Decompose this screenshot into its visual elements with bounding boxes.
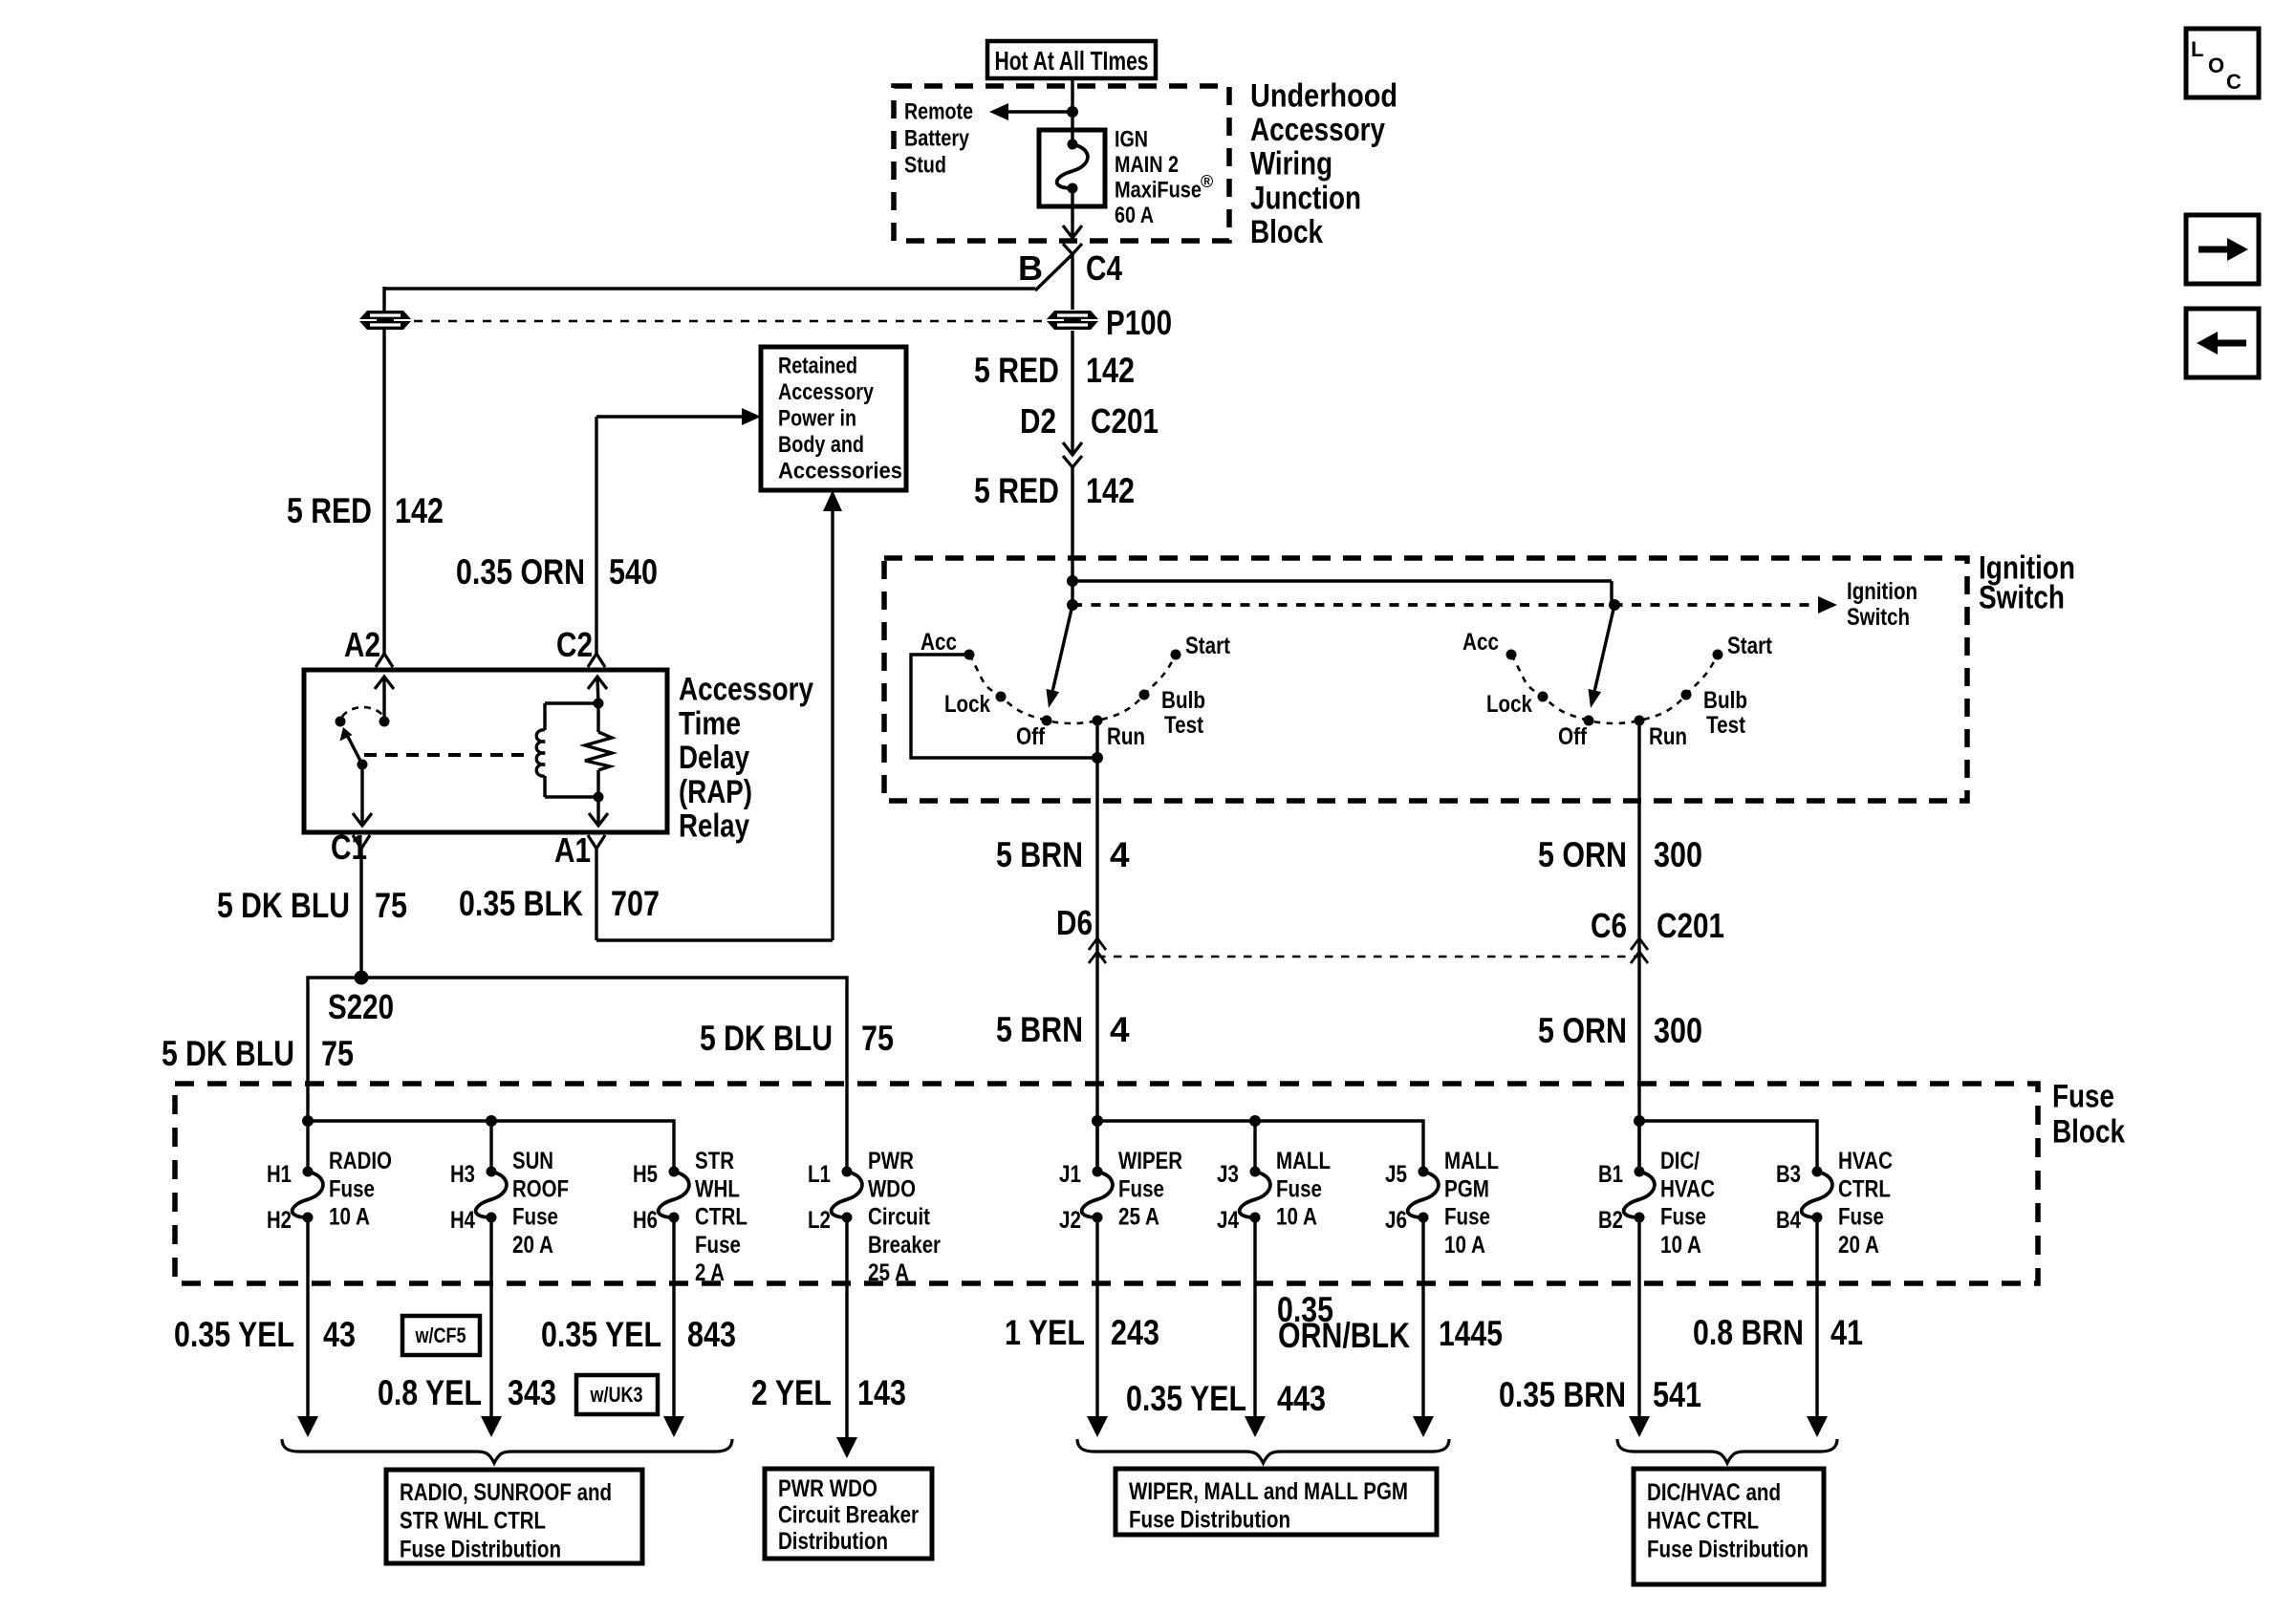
connector chevron at A2 xyxy=(376,654,393,667)
wire: ignition feed cross-over xyxy=(1072,581,1612,605)
label D6 xyxy=(1056,903,1093,942)
label 5 DK BLU 75 (left) xyxy=(162,1034,354,1073)
svg-text:5 DK BLU: 5 DK BLU xyxy=(162,1034,294,1073)
svg-text:41: 41 xyxy=(1830,1313,1863,1352)
arrow into Retained Accessory Power box xyxy=(742,408,761,425)
node: bus junction at sunroof drop xyxy=(486,1115,497,1127)
svg-text:0.35 BRN: 0.35 BRN xyxy=(1499,1375,1626,1414)
wire: P100 to C201 D2 xyxy=(1071,331,1073,453)
svg-text:60 A: 60 A xyxy=(1115,203,1154,228)
fuse WIPER 25 A (J1/J2) xyxy=(1059,1148,1182,1234)
svg-text:142: 142 xyxy=(395,491,444,530)
Underhood Accessory Wiring Junction Block (dashed) xyxy=(894,86,1229,241)
svg-text:Switch: Switch xyxy=(1847,604,1910,631)
svg-text:DIC/HVAC and: DIC/HVAC and xyxy=(1647,1479,1781,1506)
svg-text:Battery: Battery xyxy=(904,125,970,151)
svg-text:Fuse: Fuse xyxy=(329,1175,375,1202)
svg-text:S220: S220 xyxy=(328,987,394,1026)
RADIO SUNROOF STR WHL CTRL Fuse Distribution box xyxy=(386,1470,642,1563)
label 5 DK BLU 75 (right) xyxy=(700,1019,894,1058)
svg-text:Test: Test xyxy=(1164,712,1204,739)
connector C201 pin C6 chevrons xyxy=(1631,938,1648,963)
wire: fuse output drop at x=322 xyxy=(297,1217,318,1437)
label 5 BRN 4 (upper) xyxy=(996,835,1130,874)
svg-text:L2: L2 xyxy=(808,1207,831,1234)
svg-text:5 BRN: 5 BRN xyxy=(996,1010,1083,1049)
svg-text:25 A: 25 A xyxy=(868,1259,909,1286)
svg-text:Relay: Relay xyxy=(679,808,749,845)
fuse MALL PGM 10 A (J5/J6) xyxy=(1385,1148,1499,1259)
label B xyxy=(1018,248,1043,288)
svg-text:0.35 BLK: 0.35 BLK xyxy=(459,884,583,923)
svg-text:Run: Run xyxy=(1649,723,1687,750)
svg-text:Accessory: Accessory xyxy=(778,379,875,405)
svg-text:Accessory: Accessory xyxy=(1250,112,1385,148)
svg-text:HVAC: HVAC xyxy=(1660,1175,1715,1202)
svg-text:P100: P100 xyxy=(1106,303,1172,342)
wire: fuse bus dic group xyxy=(1639,1121,1817,1172)
svg-text:Fuse: Fuse xyxy=(1660,1204,1706,1231)
svg-text:Start: Start xyxy=(1727,633,1773,659)
relay switch lower contact dot xyxy=(357,760,368,770)
svg-text:5 DK BLU: 5 DK BLU xyxy=(700,1019,833,1058)
svg-text:RADIO: RADIO xyxy=(329,1148,392,1174)
svg-text:Bulb: Bulb xyxy=(1703,687,1747,714)
svg-text:C4: C4 xyxy=(1086,248,1122,288)
backward arrow legend box xyxy=(2186,309,2259,377)
svg-text:4: 4 xyxy=(1110,835,1130,874)
svg-text:MaxiFuse: MaxiFuse xyxy=(1115,177,1202,203)
IGN MAIN 2 MaxiFuse 60 A label xyxy=(1115,126,1213,228)
w/CF5 tag box xyxy=(402,1316,480,1355)
label C1 xyxy=(331,828,367,867)
Underhood Accessory Wiring Junction Block label xyxy=(1250,77,1397,249)
wire: harness run to left drop xyxy=(384,287,1035,291)
svg-text:10 A: 10 A xyxy=(329,1204,370,1231)
wire: fuse output drop at x=886 xyxy=(836,1217,857,1458)
wire: grommet down to relay A2 xyxy=(382,330,385,654)
svg-text:Circuit Breaker: Circuit Breaker xyxy=(778,1502,919,1529)
connector chevron at C1 xyxy=(353,835,370,849)
node: bus junction at radio drop xyxy=(302,1115,314,1127)
connector C201 pin D6 chevrons xyxy=(1089,938,1106,963)
relay terminal C2 wire (up arrow) xyxy=(588,677,607,703)
svg-text:Underhood: Underhood xyxy=(1250,77,1397,114)
svg-text:C: C xyxy=(2226,70,2242,94)
connector P100 grommet (right) xyxy=(1047,311,1098,330)
svg-text:Delay: Delay xyxy=(679,740,749,776)
svg-text:1 YEL: 1 YEL xyxy=(1005,1313,1085,1352)
relay resistor xyxy=(585,703,612,797)
svg-text:L: L xyxy=(2191,37,2203,61)
label 0.35 YEL 843 xyxy=(541,1315,736,1354)
svg-text:B3: B3 xyxy=(1776,1161,1801,1188)
svg-text:0.8 YEL: 0.8 YEL xyxy=(378,1373,482,1412)
svg-text:RADIO, SUNROOF and: RADIO, SUNROOF and xyxy=(400,1479,612,1506)
svg-text:w/UK3: w/UK3 xyxy=(590,1383,643,1407)
svg-text:D2: D2 xyxy=(1020,401,1056,441)
relay terminal A1 wire (down arrow) xyxy=(589,797,608,826)
wire: Run gang1 down (5 BRN 4) xyxy=(1095,721,1098,1172)
node: wire junction at battery stud tap xyxy=(1067,106,1078,118)
svg-text:J3: J3 xyxy=(1217,1161,1239,1188)
svg-text:J5: J5 xyxy=(1385,1161,1407,1188)
ignition switch gang 1 (left) xyxy=(911,599,1231,764)
wire: C201 to ignition switch xyxy=(1071,467,1073,605)
svg-text:A1: A1 xyxy=(554,830,591,870)
label 0.8 YEL 343 xyxy=(378,1373,556,1412)
svg-text:HVAC CTRL: HVAC CTRL xyxy=(1647,1508,1759,1535)
svg-text:CTRL: CTRL xyxy=(695,1204,747,1231)
svg-text:0.35 ORN: 0.35 ORN xyxy=(456,552,585,592)
svg-text:DIC/: DIC/ xyxy=(1660,1148,1700,1174)
relay coil xyxy=(536,703,598,797)
svg-text:Block: Block xyxy=(2052,1113,2125,1150)
svg-text:Body and: Body and xyxy=(778,432,864,458)
svg-text:J4: J4 xyxy=(1217,1207,1239,1234)
wire: fuse output drop at x=1313 xyxy=(1245,1217,1266,1437)
svg-text:J1: J1 xyxy=(1059,1161,1081,1188)
label 2 YEL 143 xyxy=(751,1373,906,1412)
svg-text:20 A: 20 A xyxy=(1838,1232,1879,1259)
svg-text:5 RED: 5 RED xyxy=(974,471,1059,510)
label 0.35 ORN 540 xyxy=(456,552,658,592)
svg-text:H2: H2 xyxy=(267,1207,292,1234)
svg-text:Circuit: Circuit xyxy=(868,1204,931,1231)
svg-text:Distribution: Distribution xyxy=(778,1528,888,1555)
connector P100 grommet (left) xyxy=(359,311,411,330)
svg-text:Fuse Distribution: Fuse Distribution xyxy=(1647,1536,1809,1562)
PWR WDO Circuit Breaker Distribution box xyxy=(765,1469,932,1559)
svg-text:Off: Off xyxy=(1016,723,1046,750)
svg-text:Time: Time xyxy=(679,705,741,742)
svg-text:142: 142 xyxy=(1086,351,1135,390)
label 0.35 BRN 541 xyxy=(1499,1375,1701,1414)
label 5 RED 142 (upper) xyxy=(974,351,1135,390)
Accessory Time Delay (RAP) Relay label xyxy=(679,671,813,844)
WIPER MALL MALL PGM Fuse Distribution box xyxy=(1116,1469,1437,1535)
LOC legend box xyxy=(2186,29,2259,97)
svg-text:B1: B1 xyxy=(1598,1161,1623,1188)
svg-text:D6: D6 xyxy=(1056,903,1093,942)
svg-text:PGM: PGM xyxy=(1444,1175,1489,1202)
fuse RADIO 10 A (H1/H2) xyxy=(267,1148,392,1234)
svg-text:Power in: Power in xyxy=(778,405,856,431)
svg-text:707: 707 xyxy=(611,884,660,923)
svg-text:ROOF: ROOF xyxy=(512,1175,569,1202)
svg-text:MAIN 2: MAIN 2 xyxy=(1115,152,1179,178)
label C4 xyxy=(1086,248,1122,288)
w/UK3 tag box xyxy=(576,1375,658,1414)
fuse IGN MAIN 2 MaxiFuse 60 A xyxy=(1039,130,1105,206)
wire: fuse output drop at x=705 xyxy=(663,1217,684,1437)
svg-text:C2: C2 xyxy=(556,625,593,664)
fuse HVAC CTRL 20 A (B3/B4) xyxy=(1776,1148,1893,1259)
splice S220 dot xyxy=(355,971,369,985)
label 5 BRN 4 (lower) xyxy=(996,1010,1130,1049)
relay terminal arrow A2 (up) xyxy=(375,677,394,721)
svg-text:J2: J2 xyxy=(1059,1207,1081,1234)
fuse DIC/HVAC 10 A (B1/B2) xyxy=(1598,1148,1715,1259)
brace dic group xyxy=(1617,1439,1837,1463)
svg-text:Lock: Lock xyxy=(944,691,990,718)
connector C201 pin D2 (arrow + chevron) xyxy=(1063,442,1082,467)
svg-text:10 A: 10 A xyxy=(1660,1232,1701,1259)
svg-text:Fuse: Fuse xyxy=(1444,1204,1490,1231)
svg-text:Wiring: Wiring xyxy=(1250,146,1332,183)
label 0.35 YEL 443 xyxy=(1126,1379,1326,1418)
brace radio group xyxy=(282,1439,732,1463)
wire: fuse output drop at x=1489 xyxy=(1413,1217,1434,1437)
svg-text:Retained: Retained xyxy=(778,353,857,378)
svg-text:MALL: MALL xyxy=(1444,1148,1499,1174)
Hot At All Times label box xyxy=(987,41,1156,78)
svg-text:143: 143 xyxy=(857,1373,906,1412)
relay mechanical link (dashed) xyxy=(364,753,531,757)
svg-text:w/CF5: w/CF5 xyxy=(415,1323,466,1347)
svg-text:MALL: MALL xyxy=(1276,1148,1331,1174)
label 5 RED 142 (left) xyxy=(287,491,444,530)
svg-text:142: 142 xyxy=(1086,471,1135,510)
svg-text:SUN: SUN xyxy=(512,1148,553,1174)
svg-text:Fuse: Fuse xyxy=(512,1204,558,1231)
svg-text:75: 75 xyxy=(861,1019,894,1058)
svg-text:Stud: Stud xyxy=(904,152,946,178)
svg-text:10 A: 10 A xyxy=(1444,1232,1485,1259)
label C6 xyxy=(1591,906,1627,945)
node: bus junction at dic drop xyxy=(1634,1115,1645,1127)
svg-text:H4: H4 xyxy=(450,1207,475,1234)
svg-text:541: 541 xyxy=(1653,1375,1701,1414)
svg-text:H1: H1 xyxy=(267,1161,292,1188)
svg-text:B: B xyxy=(1018,248,1043,288)
svg-text:0.8 BRN: 0.8 BRN xyxy=(1693,1313,1804,1352)
svg-text:Fuse: Fuse xyxy=(1118,1175,1164,1202)
svg-text:2 YEL: 2 YEL xyxy=(751,1373,832,1412)
relay coil bottom node dot xyxy=(594,792,604,803)
svg-text:Fuse: Fuse xyxy=(1276,1175,1322,1202)
svg-text:843: 843 xyxy=(687,1315,736,1354)
svg-text:WHL: WHL xyxy=(695,1175,740,1202)
Remote Battery Stud label xyxy=(904,98,973,178)
Retained Accessory Power in Body and Accessories box xyxy=(761,347,906,490)
wire: C1 to S220 xyxy=(359,849,362,978)
svg-text:ORN/BLK: ORN/BLK xyxy=(1278,1316,1410,1355)
svg-text:H5: H5 xyxy=(633,1161,658,1188)
svg-text:STR: STR xyxy=(695,1148,734,1174)
node: bus junction at mall drop xyxy=(1249,1115,1261,1127)
svg-text:4: 4 xyxy=(1110,1010,1130,1049)
svg-text:Remote: Remote xyxy=(904,98,973,124)
svg-text:Hot At All TImes: Hot At All TImes xyxy=(995,46,1149,75)
wire: fuse output drop at x=514 xyxy=(481,1217,502,1437)
svg-text:H6: H6 xyxy=(633,1207,658,1234)
label 1 YEL 243 xyxy=(1005,1313,1159,1352)
svg-text:C201: C201 xyxy=(1091,401,1159,441)
ignition switch gang 2 (right) xyxy=(1462,599,1773,750)
wire: battery feed into junction block xyxy=(1071,78,1073,145)
svg-text:O: O xyxy=(2208,54,2224,77)
wire: relay C2 up and right to RAP feed xyxy=(596,417,744,654)
svg-text:243: 243 xyxy=(1111,1313,1159,1352)
svg-text:540: 540 xyxy=(609,552,658,592)
C201 dashed tie line xyxy=(1097,956,1639,958)
wire: diagonal from C4 to underhood harness xyxy=(1035,254,1072,290)
svg-text:L1: L1 xyxy=(808,1161,831,1188)
svg-text:HVAC: HVAC xyxy=(1838,1148,1893,1174)
svg-text:Fuse Distribution: Fuse Distribution xyxy=(400,1536,561,1562)
label C201 (at D2) xyxy=(1091,401,1159,441)
wire: MaxiFuse to junction block edge xyxy=(1063,188,1082,238)
svg-text:IGN: IGN xyxy=(1115,126,1148,152)
svg-text:B2: B2 xyxy=(1598,1207,1623,1234)
node: ignition feed junction xyxy=(1067,575,1078,587)
svg-text:75: 75 xyxy=(375,886,407,925)
svg-text:Lock: Lock xyxy=(1486,691,1532,718)
svg-text:®: ® xyxy=(1201,172,1213,191)
svg-text:J6: J6 xyxy=(1385,1207,1407,1234)
label 5 RED 142 (lower) xyxy=(974,471,1135,510)
connector chevron at A1 xyxy=(588,835,605,849)
svg-text:Fuse Distribution: Fuse Distribution xyxy=(1129,1507,1290,1534)
svg-text:Fuse: Fuse xyxy=(695,1232,741,1259)
label C201 (at C6) xyxy=(1657,906,1724,945)
wire: A1 to Retained Accessory Power (707) xyxy=(596,507,833,940)
label P100 xyxy=(1106,303,1172,342)
svg-text:PWR WDO: PWR WDO xyxy=(778,1475,877,1502)
svg-text:WIPER, MALL and MALL PGM: WIPER, MALL and MALL PGM xyxy=(1129,1478,1408,1505)
svg-text:Accessories: Accessories xyxy=(778,459,902,484)
svg-text:Acc: Acc xyxy=(921,629,957,656)
dashed tie line between grommets xyxy=(414,320,1044,323)
wire: fuse output drop at x=1148 xyxy=(1087,1217,1108,1437)
svg-text:STR WHL CTRL: STR WHL CTRL xyxy=(400,1508,546,1535)
label D2 xyxy=(1020,401,1056,441)
svg-text:H3: H3 xyxy=(450,1161,475,1188)
svg-text:PWR: PWR xyxy=(868,1148,914,1174)
label 5 ORN 300 (lower) xyxy=(1538,1011,1702,1050)
label 0.35 ORN/BLK 1445 xyxy=(1277,1290,1503,1355)
label A1 xyxy=(554,830,591,870)
svg-text:5 RED: 5 RED xyxy=(287,491,372,530)
fuse SUN ROOF 20 A (H3/H4) xyxy=(450,1148,569,1259)
relay terminal arrow C1 (down) xyxy=(353,764,372,826)
wire: fuse output drop at x=1901 xyxy=(1807,1217,1828,1437)
label A2 xyxy=(344,625,380,664)
svg-text:343: 343 xyxy=(508,1373,556,1412)
arrow to Ignition Switch note xyxy=(1818,596,1837,613)
svg-text:WIPER: WIPER xyxy=(1118,1148,1182,1174)
svg-text:Breaker: Breaker xyxy=(868,1232,941,1259)
svg-text:75: 75 xyxy=(321,1034,354,1073)
connector C4 pin B chevron xyxy=(1063,244,1082,254)
svg-text:5 BRN: 5 BRN xyxy=(996,835,1083,874)
svg-text:0.35 YEL: 0.35 YEL xyxy=(1126,1379,1246,1418)
svg-text:443: 443 xyxy=(1277,1379,1326,1418)
Ignition Switch note label xyxy=(1847,578,1917,631)
svg-text:Start: Start xyxy=(1185,633,1231,659)
svg-text:Test: Test xyxy=(1706,712,1746,739)
svg-text:10 A: 10 A xyxy=(1276,1204,1317,1231)
svg-text:WDO: WDO xyxy=(868,1175,916,1202)
node: bus junction at wiper drop xyxy=(1092,1115,1103,1127)
Ignition Switch box (dashed) xyxy=(884,558,1967,801)
relay switch pivot dot xyxy=(336,717,346,727)
svg-text:Bulb: Bulb xyxy=(1161,687,1205,714)
svg-text:5 ORN: 5 ORN xyxy=(1538,835,1627,874)
relay switch dashed arc xyxy=(342,707,383,717)
relay switch arm with arrowhead xyxy=(340,727,363,764)
DIC/HVAC HVAC CTRL Fuse Distribution box xyxy=(1634,1469,1824,1584)
forward arrow legend box xyxy=(2186,215,2259,284)
svg-text:43: 43 xyxy=(323,1315,356,1354)
wire: S220 bus xyxy=(308,978,847,1172)
relay box Accessory Time Delay (RAP) xyxy=(304,670,667,832)
label C2 xyxy=(556,625,593,664)
svg-text:C201: C201 xyxy=(1657,906,1724,945)
svg-text:Ignition: Ignition xyxy=(1847,578,1917,605)
svg-text:CTRL: CTRL xyxy=(1838,1175,1891,1202)
label S220 xyxy=(328,987,394,1026)
Fuse Block box (dashed) xyxy=(175,1084,2038,1283)
Fuse Block title xyxy=(2052,1078,2125,1150)
svg-text:0.35 YEL: 0.35 YEL xyxy=(174,1315,294,1354)
svg-text:Junction: Junction xyxy=(1250,180,1361,216)
relay coil top node dot xyxy=(594,699,604,709)
svg-text:Fuse: Fuse xyxy=(2052,1078,2114,1114)
svg-text:5 ORN: 5 ORN xyxy=(1538,1011,1627,1050)
arrow up into Retained Accessory Power box xyxy=(823,490,842,511)
svg-text:Run: Run xyxy=(1107,723,1145,750)
svg-text:5 RED: 5 RED xyxy=(974,351,1059,390)
svg-text:B4: B4 xyxy=(1776,1207,1801,1234)
label 0.35 YEL 43 xyxy=(174,1315,356,1354)
wire: Run gang2 down (5 ORN 300) xyxy=(1637,721,1640,1172)
svg-text:Block: Block xyxy=(1250,214,1323,250)
arrow to Remote Battery Stud xyxy=(989,103,1072,120)
svg-text:2 A: 2 A xyxy=(695,1259,725,1286)
svg-text:(RAP): (RAP) xyxy=(679,774,752,810)
svg-text:Off: Off xyxy=(1558,723,1588,750)
svg-text:C6: C6 xyxy=(1591,906,1627,945)
Ignition Switch title xyxy=(1979,549,2075,615)
wire: fuse bus left group xyxy=(308,1121,674,1172)
svg-text:1445: 1445 xyxy=(1439,1314,1503,1353)
svg-text:20 A: 20 A xyxy=(512,1232,553,1259)
svg-text:Switch: Switch xyxy=(1979,579,2065,615)
svg-text:5 DK BLU: 5 DK BLU xyxy=(217,886,350,925)
svg-text:0.35 YEL: 0.35 YEL xyxy=(541,1315,661,1354)
wire: C4 to P100 xyxy=(1071,254,1073,310)
brace wiper group xyxy=(1077,1439,1449,1463)
wire: fuse bus wiper group xyxy=(1097,1121,1423,1172)
svg-text:Acc: Acc xyxy=(1462,629,1499,656)
circuit breaker PWR WDO 25 A (L1/L2) xyxy=(808,1148,941,1286)
relay switch common dot xyxy=(379,717,390,727)
ignition switch dashed gang line xyxy=(1072,603,1824,607)
fuse STR WHL CTRL 2 A (H5/H6) xyxy=(633,1148,747,1286)
svg-text:Accessory: Accessory xyxy=(679,671,813,707)
connector chevron at C2 xyxy=(588,654,605,667)
wire: left drop to grommet xyxy=(382,287,385,311)
svg-text:300: 300 xyxy=(1654,835,1702,874)
label 0.8 BRN 41 xyxy=(1693,1313,1863,1352)
label 0.35 BLK 707 xyxy=(459,884,660,923)
wire: fuse output drop at x=1715 xyxy=(1629,1217,1650,1437)
svg-text:25 A: 25 A xyxy=(1118,1204,1159,1231)
label 5 DK BLU 75 (upper) xyxy=(217,886,407,925)
label 5 ORN 300 (upper) xyxy=(1538,835,1702,874)
